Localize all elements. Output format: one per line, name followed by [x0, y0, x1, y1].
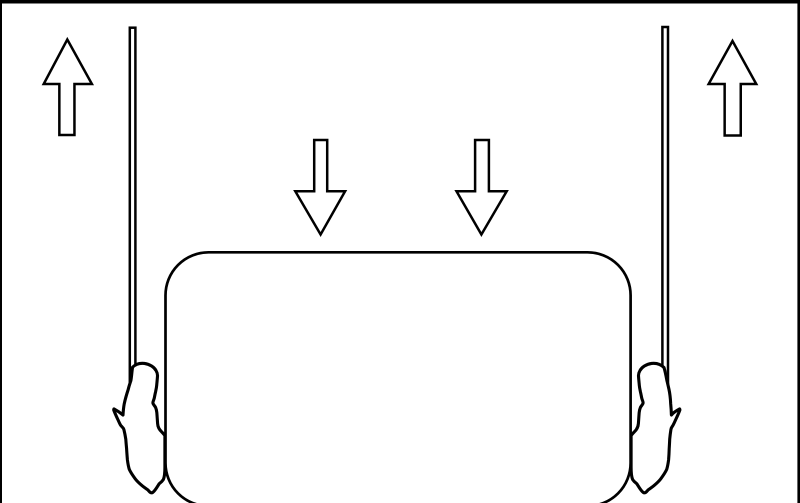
- up arrow left: [44, 40, 92, 136]
- hand left (gripping strap): [114, 363, 165, 493]
- up arrow right: [709, 41, 757, 136]
- top border bar: [0, 0, 800, 4]
- strap right (double line): [662, 27, 668, 427]
- device body (rounded rectangle, bottom cropped): [166, 252, 631, 503]
- down arrow middle-right: [457, 140, 507, 235]
- down arrow middle-left: [295, 140, 345, 235]
- left border line: [0, 0, 2, 503]
- strap left (double line): [130, 28, 136, 428]
- right border line: [797, 0, 800, 503]
- hand right (gripping strap, mirrored): [631, 363, 680, 493]
